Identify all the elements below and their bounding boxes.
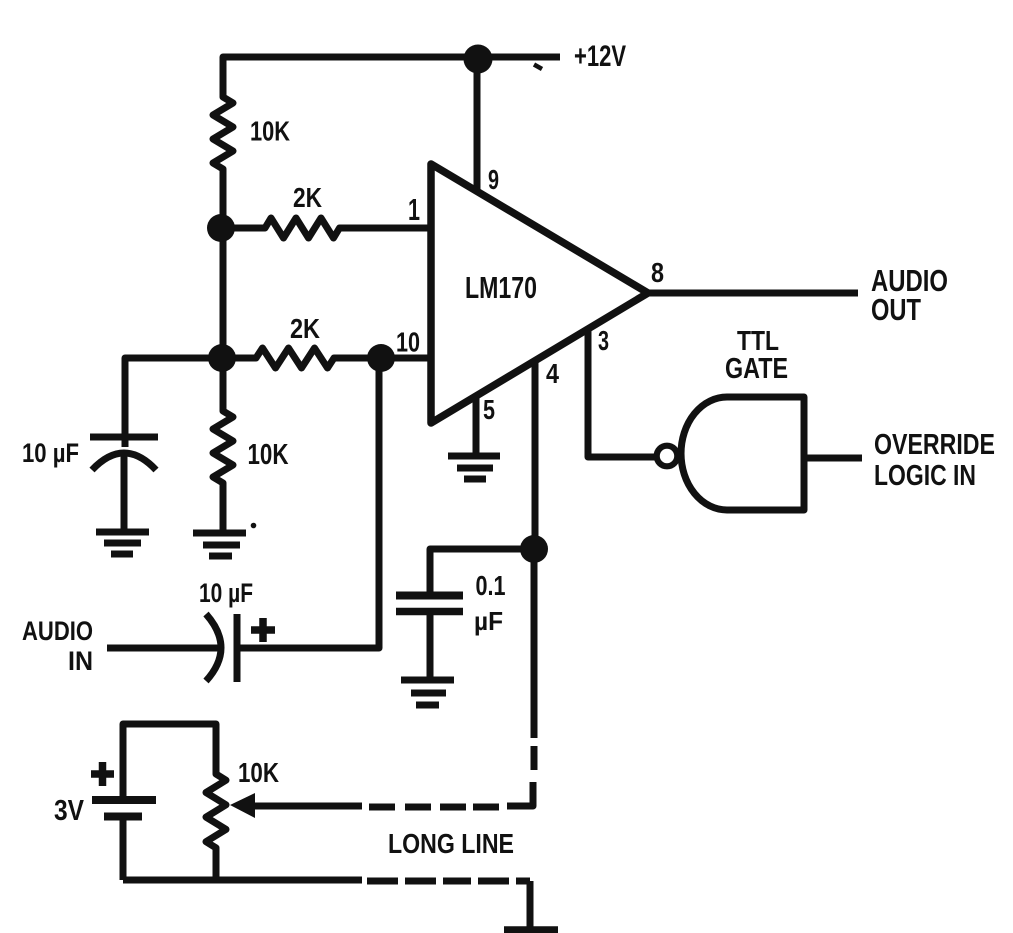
- svg-text:10K: 10K: [248, 439, 289, 471]
- svg-text:GATE: GATE: [725, 353, 788, 385]
- svg-text:IN: IN: [68, 646, 93, 676]
- svg-text:+12V: +12V: [574, 40, 626, 73]
- svg-text:10K: 10K: [250, 116, 290, 147]
- svg-text:0.1: 0.1: [476, 570, 506, 601]
- svg-text:LM170: LM170: [465, 270, 537, 305]
- svg-text:10K: 10K: [238, 757, 279, 788]
- svg-text:3V: 3V: [54, 795, 85, 827]
- svg-text:5: 5: [483, 394, 495, 425]
- svg-text:OVERRIDE: OVERRIDE: [874, 429, 995, 461]
- svg-text:10: 10: [396, 327, 420, 358]
- svg-text:LONG LINE: LONG LINE: [388, 828, 514, 859]
- svg-text:OUT: OUT: [871, 292, 921, 327]
- svg-text:4: 4: [546, 358, 559, 389]
- svg-text:TTL: TTL: [737, 325, 779, 356]
- svg-text:3: 3: [598, 325, 609, 356]
- svg-text:2K: 2K: [290, 313, 320, 344]
- svg-text:8: 8: [651, 257, 664, 288]
- svg-text:2K: 2K: [293, 182, 322, 213]
- svg-text:9: 9: [488, 164, 499, 195]
- svg-text:10 µF: 10 µF: [199, 578, 253, 608]
- svg-text:µF: µF: [474, 606, 503, 636]
- svg-text:LOGIC IN: LOGIC IN: [874, 460, 976, 492]
- svg-text:10 µF: 10 µF: [22, 438, 79, 468]
- svg-text:AUDIO: AUDIO: [22, 616, 93, 646]
- svg-text:1: 1: [408, 192, 420, 227]
